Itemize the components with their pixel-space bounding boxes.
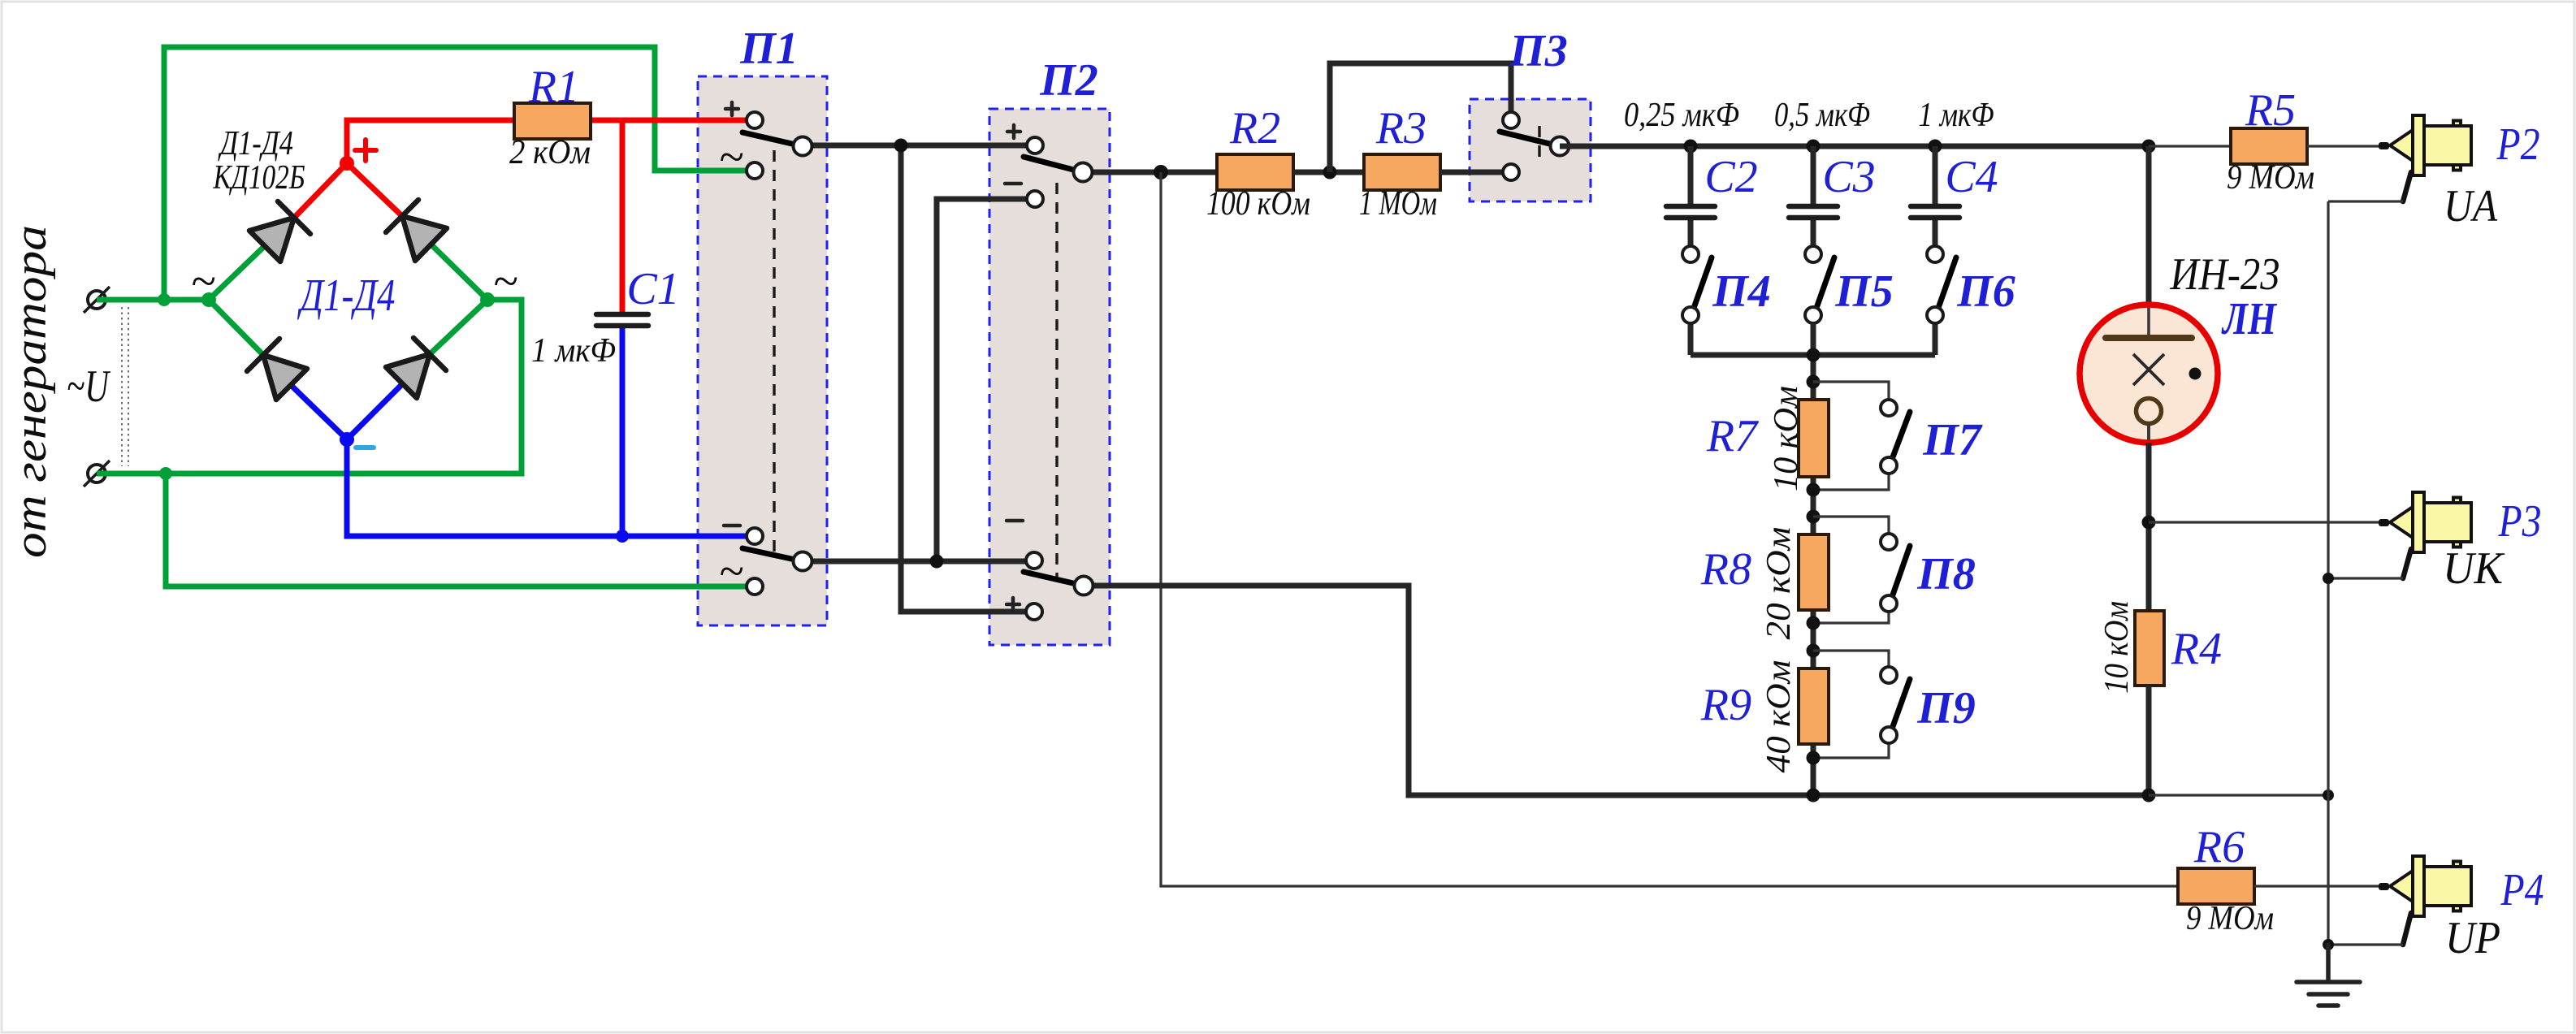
wire: green bridge edge, right node to diode Д4 xyxy=(430,300,487,354)
wire: P4 shell tab to shell line xyxy=(2328,943,2403,945)
wire: thin continuation of bottom bus to shell line xyxy=(2149,794,2328,796)
resistor R7 body xyxy=(1799,400,1829,477)
node: junction below R8 xyxy=(1807,617,1821,630)
wire: capacitor bank collector bus xyxy=(1691,353,1935,358)
svg-text:R3: R3 xyxy=(1375,103,1427,154)
switch П6 contacts xyxy=(1927,246,1943,262)
node: junction C4 xyxy=(1929,140,1942,154)
svg-text:UK: UK xyxy=(2443,543,2505,594)
wire: P3 shell tab to shell line xyxy=(2328,577,2403,579)
svg-text:R1: R1 xyxy=(528,62,579,112)
svg-text:ИН-23: ИН-23 xyxy=(2170,249,2280,300)
wire: red drop to capacitor C1 xyxy=(620,120,626,314)
node: junction on П1 lower output xyxy=(930,555,944,569)
svg-text:П7: П7 xyxy=(1922,415,1983,465)
marking: П2 upper "−" xyxy=(1005,182,1021,186)
wire: R5 feed from lamp junction xyxy=(2149,145,2231,147)
switch П1 lower lever xyxy=(742,548,803,561)
switch П1 upper lever xyxy=(742,132,803,146)
switch П1 mechanical link (dashed) xyxy=(773,150,775,552)
svg-text:C4: C4 xyxy=(1945,152,1998,202)
svg-text:П5: П5 xyxy=(1834,266,1894,317)
diode Д4 (bottom-right of bridge) xyxy=(386,338,446,398)
wire: green bridge edge, left node to diode Д3 xyxy=(209,300,263,355)
wire: thin line from junction down and right to R6 (UP channel) xyxy=(1161,172,2178,886)
node: green junction at upper terminal rail xyxy=(158,293,171,306)
svg-text:1 мкФ: 1 мкФ xyxy=(1919,97,1994,134)
marking: П1 "+" xyxy=(725,102,738,115)
capacitor C2 branch with switch П4 xyxy=(1688,146,1694,204)
svg-text:UA: UA xyxy=(2444,181,2498,231)
resistor R5 body xyxy=(2231,128,2307,164)
node: junction above R9 xyxy=(1807,644,1821,658)
switch П8 contacts xyxy=(1881,534,1897,550)
wire: red bridge edge, plus node to diode Д1 xyxy=(294,163,347,218)
svg-text:0,5 мкФ: 0,5 мкФ xyxy=(1774,97,1870,134)
node: junction lamp/R4/P3 xyxy=(2142,516,2156,530)
switch П2 mechanical link (dashed) xyxy=(1055,183,1058,578)
wire: R5 to P2 centre pin xyxy=(2307,145,2379,147)
svg-text:10 кОм: 10 кОм xyxy=(1768,386,1805,491)
resistor R3 body xyxy=(1364,154,1440,190)
wire: green top rail up, across, down into П1 "~" upper contact xyxy=(164,47,755,300)
wire: red bridge edge, plus node to diode Д2 xyxy=(347,163,402,216)
svg-text:100 кОм: 100 кОм xyxy=(1206,185,1310,223)
svg-text:~: ~ xyxy=(493,257,517,307)
switch П8 lever xyxy=(1891,546,1910,599)
dotted pairing lines between terminals xyxy=(122,307,128,466)
switch П7 lever xyxy=(1891,412,1910,461)
svg-text:П2: П2 xyxy=(1039,55,1098,106)
svg-text:R8: R8 xyxy=(1700,544,1751,595)
svg-text:2 кОм: 2 кОм xyxy=(509,134,591,171)
svg-text:1 мкФ: 1 мкФ xyxy=(531,332,616,370)
svg-text:ЛН: ЛН xyxy=(2221,294,2277,344)
wire: R3 bypass up and over to П3 upper contact xyxy=(1330,63,1511,172)
svg-text:П8: П8 xyxy=(1916,549,1976,599)
svg-text:9 МОм: 9 МОм xyxy=(2186,900,2274,937)
switch П2 lower contacts and pole xyxy=(1026,552,1042,569)
svg-text:C2: C2 xyxy=(1704,152,1757,202)
node: junction C2 xyxy=(1684,140,1698,154)
resistor R9 body xyxy=(1799,668,1829,744)
resistor R6 body xyxy=(2178,868,2254,904)
wire: lamp branch from main bus down to lamp xyxy=(2146,146,2152,305)
svg-text:R2: R2 xyxy=(1229,103,1280,154)
svg-text:R5: R5 xyxy=(2245,85,2296,136)
svg-text:R6: R6 xyxy=(2193,822,2245,872)
marking: П2 lower "−" xyxy=(1007,519,1023,523)
resistor R8 body xyxy=(1799,534,1829,610)
switch П2 upper lever xyxy=(1024,157,1083,172)
node: junction bottom bus / R4 xyxy=(2142,789,2156,803)
wire: crossover drop from upper pole rail to П2 lower "+" contact xyxy=(901,145,1034,612)
svg-text:C3: C3 xyxy=(1822,152,1875,202)
svg-text:КД102Б: КД102Б xyxy=(213,159,305,197)
wire: X2 bottom green rail to right bridge corner xyxy=(97,300,522,474)
wire: R3 to П3 lower contact xyxy=(1440,170,1511,175)
node: junction on П1 upper output xyxy=(894,139,908,153)
marking: plus sign at bridge output xyxy=(355,140,376,161)
switch П9 lever xyxy=(1891,679,1910,731)
marking: minus sign at bridge output xyxy=(356,445,374,450)
svg-text:П3: П3 xyxy=(1509,26,1568,76)
node: junction above R7 xyxy=(1807,375,1821,389)
svg-text:P2: P2 xyxy=(2496,119,2540,170)
switch П1 upper contacts and pole xyxy=(747,112,763,128)
node: bridge left AC node xyxy=(201,292,216,307)
svg-text:0,25 мкФ: 0,25 мкФ xyxy=(1624,97,1739,134)
connector P2 (UA output) xyxy=(2379,115,2471,201)
switch П2 enclosure box xyxy=(989,109,1110,645)
node: junction chain to bottom bus xyxy=(1807,789,1821,803)
node: bridge minus node xyxy=(340,432,354,447)
node: bridge plus node xyxy=(340,156,354,171)
wire: X1 to bridge left node (green) xyxy=(97,297,209,303)
svg-text:от генератора: от генератора xyxy=(6,225,56,558)
switch П5 contacts xyxy=(1805,246,1821,262)
svg-text:P4: P4 xyxy=(2500,865,2544,915)
wire: R2 to R3 xyxy=(1293,170,1364,175)
svg-text:~: ~ xyxy=(191,257,215,307)
wire: green bridge edge, left node to diode Д1 xyxy=(209,218,294,300)
terminal X1 (upper input from generator) xyxy=(84,287,110,313)
svg-text:П1: П1 xyxy=(739,24,799,74)
node: junction feeding UP output line xyxy=(1154,165,1168,180)
marking: П2 upper "+" xyxy=(1007,125,1020,138)
marking: П2 lower "+" xyxy=(1007,598,1020,611)
wire: green bridge edge, right node to diode Д2 xyxy=(402,216,487,300)
wire: crossover rise from lower pole rail to П2 upper "−" contact xyxy=(937,199,1035,561)
node: green junction at lower terminal rail xyxy=(159,467,172,480)
wire: thin line from junction to P3 centre pin xyxy=(2149,521,2379,523)
svg-text:P3: P3 xyxy=(2498,496,2542,547)
svg-text:П6: П6 xyxy=(1956,266,2015,317)
svg-text:R9: R9 xyxy=(1700,680,1751,730)
node: junction below R7 xyxy=(1807,483,1821,497)
wire: blue bridge edge, minus node to diode Д4 xyxy=(347,383,403,439)
diode Д2 (top-right of bridge) xyxy=(386,200,447,261)
wire: П2 lower pole output, right then down to measuring bus xyxy=(1084,586,2149,795)
node: junction collector bus / chain xyxy=(1807,348,1821,362)
marking: П1 "−" xyxy=(724,524,740,528)
switch П3 enclosure box xyxy=(1470,99,1591,201)
svg-text:Д1-Д4: Д1-Д4 xyxy=(218,125,293,162)
svg-text:~: ~ xyxy=(719,132,743,183)
svg-text:9 МОм: 9 МОм xyxy=(2227,159,2314,197)
switch П2 lower lever xyxy=(1024,572,1084,586)
wire: main measuring bus from П3 pole across capacitor bank xyxy=(1560,144,2149,149)
wire: blue bridge edge, minus node to diode Д3 xyxy=(292,386,347,439)
switch П3 lever xyxy=(1500,132,1560,146)
wire: R4 down to bottom bus xyxy=(2146,686,2152,795)
svg-text:R7: R7 xyxy=(1706,411,1759,461)
connector P3 (UK output) xyxy=(2379,492,2471,578)
node: junction below R9 xyxy=(1807,751,1821,765)
node: junction of R3 bypass xyxy=(1323,166,1337,180)
svg-text:10 кОм: 10 кОм xyxy=(2098,601,2136,694)
wire: П2 upper pole output to R2 xyxy=(1083,170,1217,175)
svg-text:1 МОм: 1 МОм xyxy=(1359,185,1437,223)
switch П1 lower contacts and pole xyxy=(747,528,763,544)
wire: red from plus node up and right through R1 to П1 "+" contact xyxy=(347,120,755,163)
switch П6 lever xyxy=(1937,257,1956,310)
switch П2 upper contacts and pole xyxy=(1027,137,1043,154)
capacitor C1 plates xyxy=(596,314,648,326)
neon lamp ЛН (ИН-23) xyxy=(2080,305,2218,443)
switch П4 lever xyxy=(1693,257,1712,310)
capacitor C3 branch with switch П5 xyxy=(1811,146,1816,204)
diode Д3 (bottom-left of bridge) xyxy=(247,339,307,400)
wire: green from lower rail down and right into П1 lower "~" contact xyxy=(166,474,755,586)
wire: П1 lower pole output to П2 "−" contact xyxy=(803,559,1034,565)
switch П8 bypass wiring xyxy=(1813,517,1889,623)
svg-text:~U: ~U xyxy=(67,361,111,412)
wire: blue from capacitor C1 down to minus rail xyxy=(620,327,626,536)
switch П9 contacts xyxy=(1881,667,1897,683)
node: junction C3 xyxy=(1807,140,1821,154)
wire: R6 to P4 centre pin xyxy=(2254,885,2379,887)
capacitor C4 branch with switch П6 xyxy=(1933,146,1938,204)
ground xyxy=(2297,945,2360,1006)
svg-text:Д1-Д4: Д1-Д4 xyxy=(297,270,395,321)
svg-text:П4: П4 xyxy=(1712,266,1771,317)
node: junction P3 shell on shell line xyxy=(2323,573,2334,584)
node: junction to lamp branch xyxy=(2142,140,2156,154)
svg-text:~: ~ xyxy=(719,547,743,597)
switch П5 lever xyxy=(1816,257,1834,310)
svg-text:40 кОм: 40 кОм xyxy=(1760,660,1798,773)
switch П7 contacts xyxy=(1881,400,1897,416)
switch П7 bypass wiring xyxy=(1813,382,1889,490)
switch П4 contacts xyxy=(1682,246,1699,262)
wire: divider chain from П5 branch down to bottom bus xyxy=(1811,323,1816,795)
wire: shell line (common) vertical xyxy=(2327,201,2329,945)
svg-text:20 кОм: 20 кОм xyxy=(1760,527,1798,640)
svg-text:R4: R4 xyxy=(2171,624,2222,674)
node: blue junction of C1 with minus rail xyxy=(616,530,629,543)
connector P4 (UP output) xyxy=(2379,856,2471,945)
switch П3 contacts and pole xyxy=(1503,112,1519,128)
node: bridge right AC node xyxy=(480,292,495,307)
wire: blue from minus node down and right to П1 "−" contact xyxy=(347,439,755,536)
resistor R4 body xyxy=(2135,611,2164,686)
svg-text:UP: UP xyxy=(2445,913,2500,963)
svg-text:C1: C1 xyxy=(626,264,679,314)
node: junction above R8 xyxy=(1807,510,1821,524)
wire: lamp bottom to R4 xyxy=(2146,443,2152,611)
wire: П1 upper pole output to П2 "+" contact xyxy=(803,143,1035,149)
wire: P2 shell tab to shell line xyxy=(2328,200,2403,202)
node: junction bottom bus / shell line xyxy=(2323,790,2334,801)
switch П9 bypass wiring xyxy=(1813,651,1889,758)
node: junction P4 shell on shell line xyxy=(2323,939,2334,950)
resistor R2 body xyxy=(1217,154,1293,190)
diode Д1 (top-left of bridge) xyxy=(249,201,310,262)
svg-text:П9: П9 xyxy=(1916,683,1976,733)
switch П1 enclosure box xyxy=(698,76,827,625)
switch П3 link (dashed) xyxy=(1538,126,1540,164)
resistor R1 body xyxy=(514,103,591,139)
terminal X2 (lower input from generator) xyxy=(84,461,110,487)
